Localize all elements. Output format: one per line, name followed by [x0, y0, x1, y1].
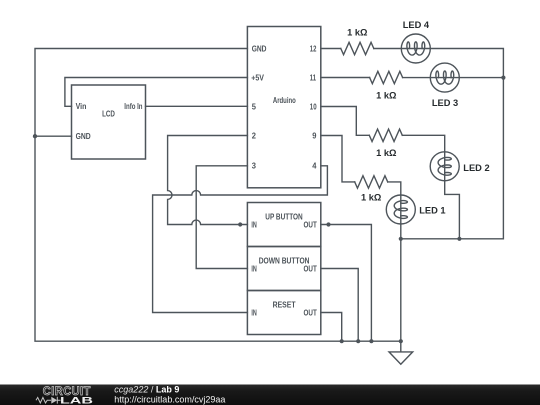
wire: UP BUTTON OUT to ground rail: [321, 225, 372, 342]
svg-text:LED 3: LED 3: [432, 98, 458, 108]
block: DOWN BUTTON: [247, 247, 320, 291]
svg-text:LED 1: LED 1: [419, 206, 445, 216]
svg-text:OUT: OUT: [304, 264, 317, 273]
svg-text:IN: IN: [251, 308, 256, 317]
svg-text:RESET: RESET: [273, 300, 296, 309]
lamp LED 1: [386, 195, 415, 224]
block: Arduino: [247, 27, 320, 188]
resistor R1 1 kOhm: [341, 42, 374, 54]
wire: Arduino pin 2 to UP BUTTON IN (hop over pin4 wire, hop over pin3 wire): [168, 136, 248, 225]
wire: pin 10 to R3 to LED 2: [321, 107, 445, 181]
wire: LCD GND pin to left rail: [35, 135, 72, 137]
svg-text:OUT: OUT: [304, 220, 317, 229]
wire: LED 2 cathode jog to node row: [445, 181, 460, 239]
svg-text:1 kΩ: 1 kΩ: [361, 193, 382, 203]
svg-text:Arduino: Arduino: [273, 96, 296, 105]
svg-text:12: 12: [310, 44, 317, 53]
junction dots: [33, 134, 37, 138]
wire: pin 9 to R4 to LED 1: [321, 136, 401, 196]
svg-text:IN: IN: [251, 264, 256, 273]
block: RESET: [247, 291, 320, 335]
svg-text:+5V: +5V: [251, 73, 264, 82]
svg-text:LED 2: LED 2: [463, 163, 489, 173]
svg-text:Info In: Info In: [124, 102, 142, 111]
svg-text:11: 11: [310, 73, 317, 82]
lamp LED 3: [430, 63, 459, 92]
svg-text:UP BUTTON: UP BUTTON: [265, 213, 302, 222]
lamp LED 2: [430, 152, 459, 181]
resistor R3 1 kOhm: [369, 129, 402, 141]
svg-text:IN: IN: [251, 220, 256, 229]
svg-text:LAB: LAB: [60, 395, 93, 405]
svg-text:3: 3: [252, 162, 257, 171]
wire: RESET OUT to ground rail: [321, 313, 342, 342]
block: LCD: [72, 85, 146, 159]
svg-text:5: 5: [252, 102, 257, 111]
wire: DOWN BUTTON OUT to ground rail: [321, 269, 358, 342]
svg-text:2: 2: [252, 131, 257, 140]
block: UP BUTTON: [247, 203, 320, 247]
wire: pin 12 row through LED 4 to right rail down to cathode row: [321, 49, 504, 239]
logo squiggle resistor and diode: [36, 397, 61, 404]
lamp LED 4: [401, 34, 430, 63]
svg-text:1 kΩ: 1 kΩ: [376, 148, 397, 158]
resistor R4 1 kOhm: [355, 176, 388, 188]
wire: Arduino +5V pin to LCD Vin: [65, 78, 248, 107]
svg-text:9: 9: [312, 131, 317, 140]
node: junction LCD GND / left rail: [33, 134, 37, 138]
svg-text:GND: GND: [76, 132, 91, 141]
svg-text:LCD: LCD: [102, 110, 115, 119]
svg-text:10: 10: [310, 102, 317, 111]
wire: Arduino pin 4 to RESET IN (hop over pin3 wire): [153, 166, 328, 313]
wire: LED 1 through-wire down to ground rail: [400, 195, 402, 341]
resistor R2 1 kOhm: [370, 71, 403, 83]
svg-text:ccga222 / Lab 9: ccga222 / Lab 9: [114, 385, 179, 395]
svg-text:LED 4: LED 4: [403, 20, 430, 30]
svg-text:1 kΩ: 1 kΩ: [376, 91, 397, 101]
svg-text:OUT: OUT: [304, 308, 317, 317]
svg-text:DOWN BUTTON: DOWN BUTTON: [259, 257, 310, 266]
wire: Arduino GND pin to left rail and bottom ground rail: [35, 49, 401, 342]
svg-text:GND: GND: [252, 44, 267, 53]
wire: LCD Info In to Arduino pin 5: [146, 105, 248, 107]
svg-text:Vin: Vin: [76, 102, 87, 111]
svg-text:4: 4: [312, 162, 317, 171]
wire: Arduino pin 3 to DOWN BUTTON IN: [196, 166, 247, 269]
ground symbol: [389, 341, 413, 364]
footer bar: [0, 385, 540, 405]
svg-text:http://circuitlab.com/cvj29aa: http://circuitlab.com/cvj29aa: [114, 395, 225, 405]
svg-text:1 kΩ: 1 kΩ: [347, 28, 368, 38]
wire: pin 11 row through LED 3 to right rail: [321, 77, 504, 79]
